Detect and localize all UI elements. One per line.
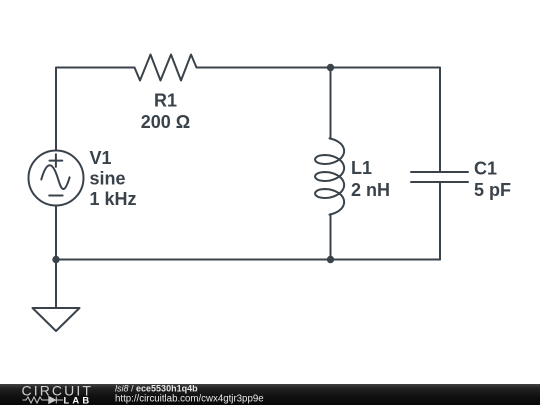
wire top-left: left branch top to resistor [56,68,135,151]
logo diode [49,397,56,404]
wire inductor branch bottom [329,215,332,260]
svg-text:1 kHz: 1 kHz [90,189,137,209]
wire source bottom to bottom-left node [55,206,57,260]
wire bottom rail [56,259,440,261]
ground symbol [33,308,80,331]
V1 sine wave [41,165,69,189]
wire top rail: resistor to top node [197,67,331,69]
logo circuit glyph: wire + resistor zigzag [23,397,64,404]
svg-text:V1: V1 [90,148,112,168]
node top (junction of R1/L1/C1 top) [327,64,334,71]
footer bar [0,384,540,405]
svg-text:lsi8 / ece5530h1q4b: lsi8 / ece5530h1q4b [115,384,198,394]
svg-text:2 nH: 2 nH [351,180,390,200]
inductor L1 coil [315,138,344,214]
V1 minus sign [49,195,62,197]
wire top rail: node to top-right corner and down to capacitor [331,68,441,172]
voltage source V1 circle [29,151,84,206]
svg-text:5 pF: 5 pF [474,180,511,200]
V1 plus sign [50,154,63,167]
svg-text:200 Ω: 200 Ω [141,112,190,132]
svg-text:sine: sine [90,168,126,188]
resistor R1 [135,55,197,81]
svg-text:LAB: LAB [64,394,93,405]
svg-text:C1: C1 [474,159,497,179]
node bottom (junction of L1 bottom) [327,256,334,263]
wire inductor branch top [329,68,332,139]
svg-text:R1: R1 [154,91,177,111]
svg-text:L1: L1 [351,158,372,178]
svg-text:http://circuitlab.com/cwx4gtjr: http://circuitlab.com/cwx4gtjr3pp9e [115,393,264,404]
wire bottom-left node to ground [55,260,57,309]
wire capacitor bottom to bottom-right corner [439,182,441,260]
capacitor C1 plates [411,172,468,182]
node bottom-left (junction of V1/ground/rail) [52,256,59,263]
